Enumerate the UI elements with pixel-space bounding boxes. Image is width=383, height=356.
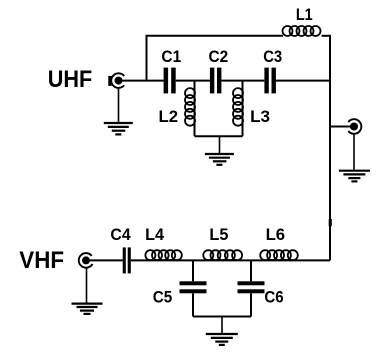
svg-text:L2: L2 — [159, 107, 179, 126]
svg-text:C5: C5 — [153, 287, 173, 306]
svg-text:C6: C6 — [264, 287, 283, 306]
svg-text:C1: C1 — [161, 47, 181, 66]
svg-text:L3: L3 — [250, 107, 270, 126]
svg-text:L6: L6 — [266, 225, 286, 244]
svg-text:UHF: UHF — [48, 66, 92, 93]
svg-text:C2: C2 — [209, 47, 229, 66]
svg-text:L1: L1 — [296, 5, 313, 24]
svg-text:L5: L5 — [209, 225, 228, 244]
svg-text:L4: L4 — [145, 225, 165, 244]
svg-text:C4: C4 — [110, 225, 131, 244]
svg-text:C3: C3 — [263, 47, 282, 66]
svg-text:VHF: VHF — [19, 247, 64, 274]
